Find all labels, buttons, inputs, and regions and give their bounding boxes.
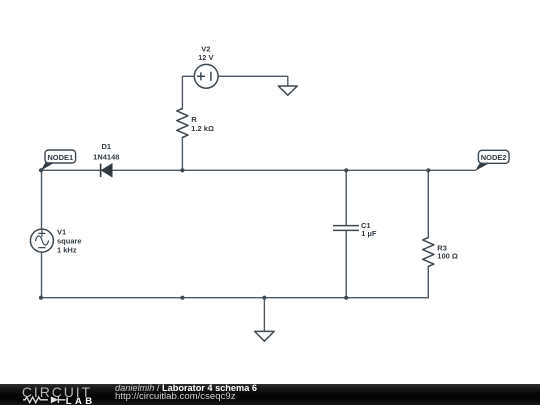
svg-text:V1: V1	[57, 228, 66, 237]
svg-text:100 Ω: 100 Ω	[437, 252, 458, 261]
svg-text:1.2 kΩ: 1.2 kΩ	[191, 124, 214, 133]
svg-text:D1: D1	[102, 142, 112, 151]
svg-text:1 µF: 1 µF	[361, 229, 377, 238]
svg-text:1N4148: 1N4148	[93, 152, 119, 161]
svg-text:NODE2: NODE2	[481, 153, 507, 162]
svg-text:12 V: 12 V	[198, 53, 213, 62]
svg-text:V2: V2	[201, 44, 210, 53]
svg-text:square: square	[57, 236, 82, 245]
svg-text:NODE1: NODE1	[47, 153, 73, 162]
svg-text:LAB: LAB	[66, 396, 96, 405]
svg-text:R: R	[191, 115, 197, 124]
svg-text:1 kHz: 1 kHz	[57, 245, 77, 254]
